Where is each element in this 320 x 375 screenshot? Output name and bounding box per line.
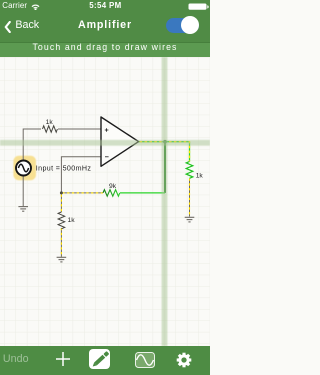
svg-text:1k: 1k — [196, 173, 204, 180]
svg-text:1k: 1k — [46, 119, 54, 126]
svg-text:Input = 500mHz: Input = 500mHz — [36, 164, 92, 172]
svg-text:9k: 9k — [109, 183, 117, 190]
svg-text:1k: 1k — [68, 217, 76, 224]
